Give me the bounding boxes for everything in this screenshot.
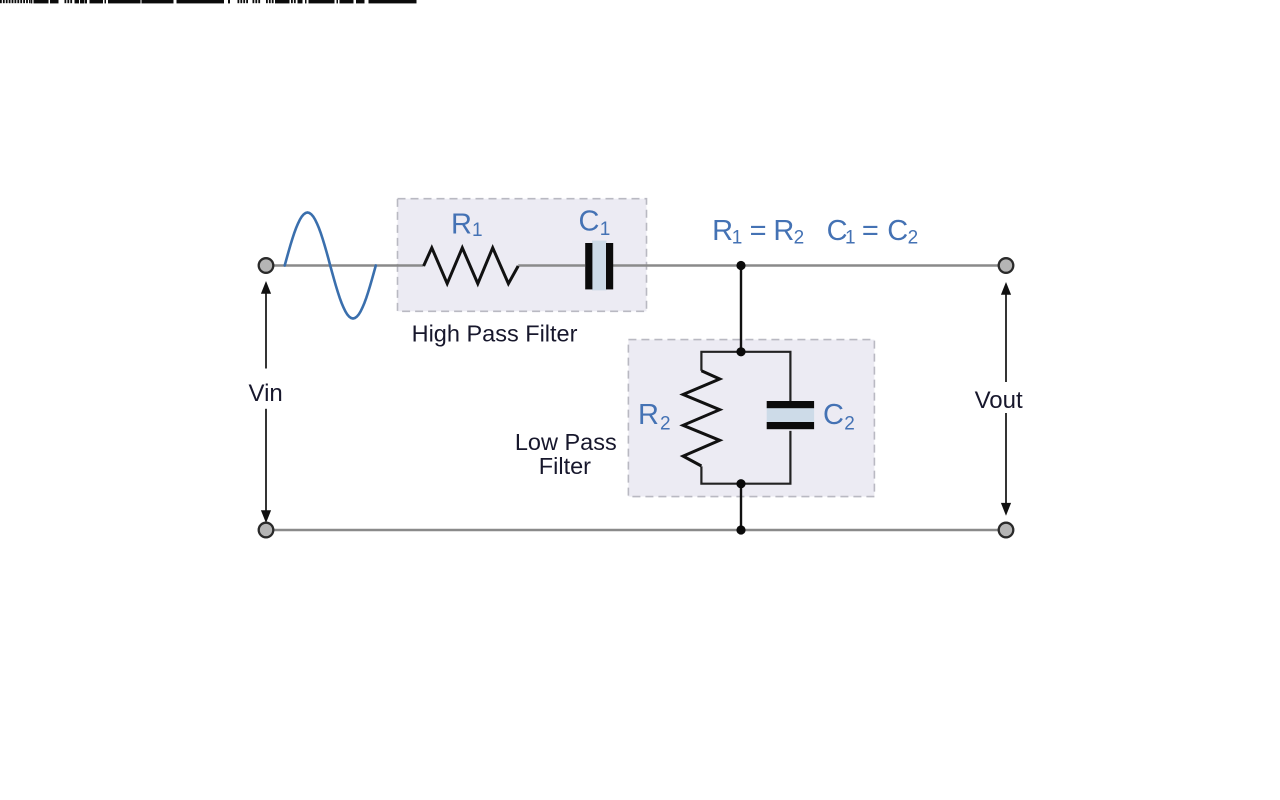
svg-text:1: 1 [845,228,856,249]
svg-text:R: R [451,208,472,240]
svg-text:C: C [887,215,908,247]
svg-text:C: C [823,399,844,431]
svg-text:2: 2 [794,228,805,249]
svg-text:C: C [579,205,600,237]
svg-text:High Pass Filter: High Pass Filter [412,320,578,346]
svg-text:=: = [750,215,767,247]
svg-text:R: R [712,215,733,247]
svg-text:Vout: Vout [975,387,1023,414]
svg-text:1: 1 [732,228,743,249]
svg-text:2: 2 [908,228,919,249]
svg-text:R: R [773,215,794,247]
svg-text:=: = [862,215,879,247]
svg-text:Vin: Vin [249,380,283,407]
svg-text:2: 2 [844,414,855,435]
svg-text:2: 2 [660,414,671,435]
svg-text:Filter: Filter [539,453,591,479]
svg-text:1: 1 [600,219,611,240]
svg-text:R: R [638,399,659,431]
svg-text:Low Pass: Low Pass [515,429,617,455]
svg-text:1: 1 [472,220,483,241]
